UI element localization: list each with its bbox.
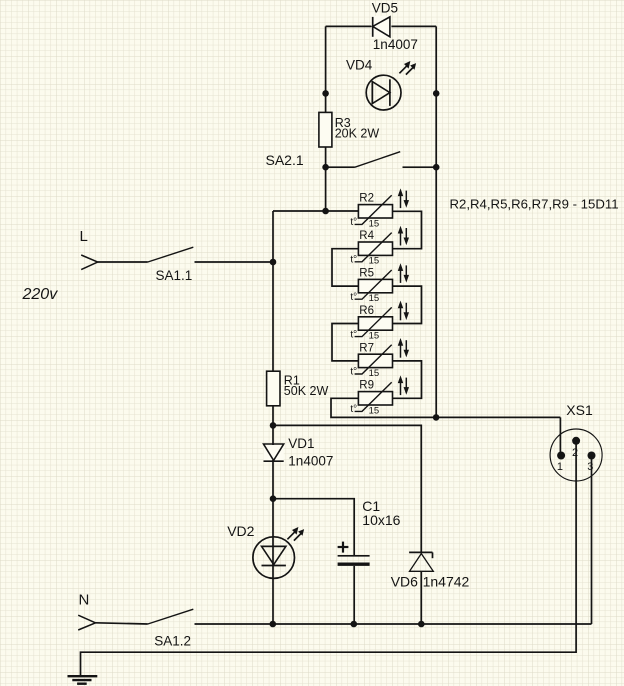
wire L to switch: [98, 261, 148, 263]
svg-text:L: L: [80, 228, 88, 245]
svg-text:SA1.2: SA1.2: [154, 633, 191, 648]
svg-text:15: 15: [369, 405, 380, 416]
wire junction row: [273, 210, 358, 212]
varistor R2 diagonal: [355, 195, 392, 224]
svg-text:VD1: VD1: [288, 436, 314, 451]
svg-text:1: 1: [557, 461, 563, 473]
varistor R2: [358, 205, 392, 218]
arrows R9: [398, 376, 408, 395]
label XS1: [566, 402, 593, 418]
label VD5: [372, 1, 398, 16]
led VD2 light arrows: [287, 528, 303, 541]
wire right bus: [435, 26, 437, 417]
arrows R4: [398, 227, 408, 246]
svg-text:15: 15: [369, 293, 380, 304]
pin 1 XS1: [557, 452, 565, 460]
varistor R7: [358, 354, 392, 367]
label t-deg R5: [350, 292, 357, 303]
value label 1n4007 (VD5): [373, 37, 418, 52]
svg-text:t°: t°: [350, 292, 357, 303]
pin 2 XS1: [572, 437, 580, 445]
svg-text:20K 2W: 20K 2W: [335, 127, 380, 141]
label R3: [335, 116, 351, 130]
label t-deg R7: [350, 367, 357, 378]
label VD2: [227, 523, 254, 539]
junction VD6 bottom: [418, 621, 425, 628]
wire R9 left to bottom: [331, 398, 560, 417]
value label 50K 2W: [284, 384, 329, 398]
label VD4: [346, 58, 373, 73]
svg-text:220v: 220v: [22, 286, 59, 303]
svg-text:XS1: XS1: [566, 402, 593, 418]
connector XS1 outline: [550, 429, 602, 481]
label VD1: [288, 436, 314, 451]
label R4: [359, 230, 374, 242]
arrows R5: [398, 264, 408, 283]
label N: [79, 591, 90, 608]
label C1: [362, 498, 380, 514]
value label 1n4007 (VD1): [288, 454, 333, 469]
svg-text:R2,R4,R5,R6,R7,R9 - 15D11: R2,R4,R5,R6,R7,R9 - 15D11: [450, 197, 619, 212]
value label 15 (R5): [369, 293, 380, 304]
pin number 2: [572, 447, 578, 459]
diode VD5: [371, 16, 391, 38]
ground symbol: [68, 676, 98, 684]
label VD6: [391, 573, 418, 589]
svg-text:t°: t°: [350, 217, 357, 228]
svg-text:t°: t°: [350, 367, 357, 378]
junction SA2.1 right: [433, 164, 440, 171]
svg-text:t°: t°: [350, 404, 357, 415]
wire ground line: [81, 441, 577, 676]
wire to VD6 branch: [273, 425, 421, 552]
svg-text:15: 15: [369, 331, 380, 342]
label R9: [359, 380, 374, 392]
switch SA1.1: [148, 247, 273, 262]
value label 15 (R2): [369, 218, 380, 229]
svg-text:VD2: VD2: [227, 523, 254, 539]
svg-text:R2: R2: [359, 193, 374, 205]
label t-deg R6: [350, 329, 357, 340]
svg-text:10x16: 10x16: [362, 512, 400, 528]
label t-deg R4: [350, 255, 357, 266]
label t-deg R9: [350, 404, 357, 415]
value label 15 (R9): [369, 405, 380, 416]
svg-text:2: 2: [572, 447, 578, 459]
resistor R1: [267, 371, 280, 406]
wire N to switch: [96, 623, 148, 624]
svg-text:R7: R7: [359, 342, 374, 354]
svg-text:3: 3: [587, 461, 593, 473]
label R7: [359, 342, 374, 354]
wire left top bus: [325, 26, 327, 211]
svg-text:t°: t°: [350, 329, 357, 340]
svg-text:N: N: [79, 591, 90, 608]
terminal L chevron: [81, 255, 98, 270]
varistor R4: [358, 242, 392, 255]
junction C1 bottom: [351, 621, 358, 628]
label chain note: [450, 197, 619, 212]
diode VD1: [264, 444, 284, 461]
value label 20K 2W: [335, 127, 380, 141]
wire R7-R9 right connector: [393, 361, 422, 398]
svg-text:1n4007: 1n4007: [373, 37, 418, 52]
junction chain bottom right bus: [433, 414, 440, 421]
varistor R5 diagonal: [355, 270, 392, 299]
wire R5-R6 right connector: [393, 286, 422, 323]
arrows R2: [398, 189, 408, 208]
wire bottom to XS1 pin3: [591, 456, 593, 625]
varistor R9 diagonal: [355, 382, 392, 411]
arrows R7: [398, 339, 408, 358]
varistor R9: [358, 392, 392, 405]
junction VD1 top branch: [270, 422, 277, 429]
svg-text:R5: R5: [359, 268, 374, 280]
led VD4: [366, 75, 401, 110]
wire top horizontal: [326, 25, 437, 27]
svg-text:t°: t°: [350, 255, 357, 266]
svg-text:R9: R9: [359, 380, 374, 392]
led VD2: [253, 537, 295, 579]
junction VD2 bottom: [270, 621, 277, 628]
label t-deg R2: [350, 217, 357, 228]
wire R2-R4 right connector: [393, 211, 422, 248]
value label 15 (R4): [369, 256, 380, 267]
svg-text:1n4007: 1n4007: [288, 454, 333, 469]
led VD4 light arrows: [399, 62, 415, 75]
value label 15 (R7): [369, 368, 380, 379]
svg-text:SA1.1: SA1.1: [156, 268, 193, 283]
varistor R4 diagonal: [355, 233, 392, 262]
svg-text:1n4742: 1n4742: [423, 573, 470, 589]
value label 10x16: [362, 512, 400, 528]
junction SA2.1 left: [322, 164, 329, 171]
junction chain top: [322, 208, 329, 215]
varistor R6: [358, 317, 392, 330]
capacitor C1: [338, 556, 370, 624]
capacitor C1 plus: [338, 542, 349, 553]
junction SA1.1 out: [270, 259, 277, 266]
svg-text:15: 15: [369, 218, 380, 229]
svg-text:VD5: VD5: [372, 1, 398, 16]
svg-text:VD4: VD4: [346, 58, 373, 73]
wire left main bus: [272, 211, 274, 624]
label SA1.1: [156, 268, 193, 283]
svg-text:R4: R4: [359, 230, 374, 242]
svg-text:VD6: VD6: [391, 573, 418, 589]
label SA1.2: [154, 633, 191, 648]
pin number 1: [557, 461, 563, 473]
svg-text:50K 2W: 50K 2W: [284, 384, 329, 398]
svg-text:15: 15: [369, 368, 380, 379]
value label 15 (R6): [369, 331, 380, 342]
label SA2.1: [266, 152, 304, 168]
svg-text:R6: R6: [359, 305, 374, 317]
wire top bus to XS1 pin1: [559, 417, 561, 455]
svg-text:SA2.1: SA2.1: [266, 152, 304, 168]
junction VD4 left: [322, 90, 329, 97]
label 220v: [22, 286, 59, 303]
label R5: [359, 268, 374, 280]
label R2: [359, 193, 374, 205]
label R1: [284, 374, 300, 388]
terminal N chevron: [78, 615, 95, 630]
wire R4-R5 left connector: [332, 249, 358, 286]
switch SA2.1: [326, 152, 437, 168]
zener VD6: [409, 552, 433, 624]
pin number 3: [587, 461, 593, 473]
varistor R6 diagonal: [355, 307, 392, 336]
value label 1n4742: [423, 573, 470, 589]
switch SA1.2: [148, 609, 592, 624]
junction VD4 right: [433, 90, 440, 97]
pin 3 XS1: [588, 452, 596, 460]
label R6: [359, 305, 374, 317]
junction C1 branch: [270, 495, 277, 502]
arrows R6: [398, 302, 408, 321]
label L: [80, 228, 88, 245]
svg-text:15: 15: [369, 256, 380, 267]
wire R6-R7 left connector: [332, 324, 358, 361]
varistor R5: [358, 279, 392, 292]
wire to C1 branch: [273, 499, 354, 555]
resistor R3: [319, 112, 332, 147]
varistor R7 diagonal: [355, 345, 392, 374]
